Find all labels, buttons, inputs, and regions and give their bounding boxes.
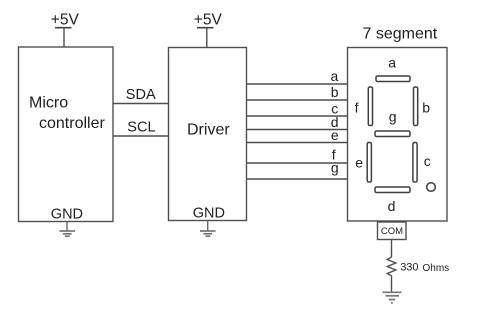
+5V supply driver <box>194 11 223 47</box>
ground symbol bottom (earth) <box>383 292 402 303</box>
svg-text:SDA: SDA <box>126 87 156 103</box>
svg-text:e: e <box>355 155 363 171</box>
svg-text:e: e <box>331 127 339 143</box>
svg-text:g: g <box>331 160 339 176</box>
segment a with label <box>376 55 410 82</box>
driver U2 box <box>169 48 247 221</box>
ground symbol micro controller <box>60 222 76 237</box>
svg-text:+5V: +5V <box>194 11 223 28</box>
wire SCL with label <box>113 120 169 137</box>
svg-text:GND: GND <box>193 206 225 222</box>
svg-text:7 segment: 7 segment <box>363 26 438 43</box>
svg-text:+5V: +5V <box>51 11 80 28</box>
resistor R1 zigzag <box>387 257 396 278</box>
decimal point DP <box>427 183 436 192</box>
svg-text:Micro: Micro <box>29 95 68 112</box>
segment c with label <box>413 143 431 183</box>
wire c <box>247 101 348 117</box>
wire e <box>247 127 348 143</box>
+5V supply micro controller <box>51 11 80 47</box>
svg-text:b: b <box>331 84 339 100</box>
segment d with label <box>375 187 410 214</box>
svg-text:a: a <box>331 68 339 84</box>
7 segment display DS1 box <box>348 26 448 222</box>
wire d <box>247 114 348 130</box>
micro controller U1 box <box>19 47 114 222</box>
svg-text:GND: GND <box>51 207 83 223</box>
svg-text:a: a <box>388 55 396 71</box>
wire g <box>247 160 348 180</box>
ground symbol driver <box>200 221 216 237</box>
segment b with label <box>414 87 431 126</box>
segment f with label <box>355 87 373 126</box>
svg-text:g: g <box>389 109 397 125</box>
svg-text:COM: COM <box>381 226 403 237</box>
segment g with label <box>375 109 410 137</box>
svg-text:b: b <box>422 100 430 116</box>
segment e with label <box>355 143 371 183</box>
COM pin box with label <box>378 222 407 240</box>
svg-text:Driver: Driver <box>187 122 230 139</box>
wire f <box>247 147 348 164</box>
wire COM to resistor <box>391 240 393 258</box>
wire a driver to display with label <box>247 68 348 84</box>
wire SDA with label <box>113 87 169 104</box>
svg-text:controller: controller <box>39 115 105 132</box>
svg-text:c: c <box>424 153 431 169</box>
svg-text:d: d <box>388 198 396 214</box>
wire b <box>247 84 348 100</box>
svg-text:SCL: SCL <box>127 120 155 136</box>
wire resistor to ground <box>391 278 393 293</box>
resistor value label 330 Ohms <box>400 262 449 274</box>
svg-text:f: f <box>355 100 359 116</box>
svg-text:Ohms: Ohms <box>423 263 450 274</box>
svg-text:330: 330 <box>400 262 418 274</box>
